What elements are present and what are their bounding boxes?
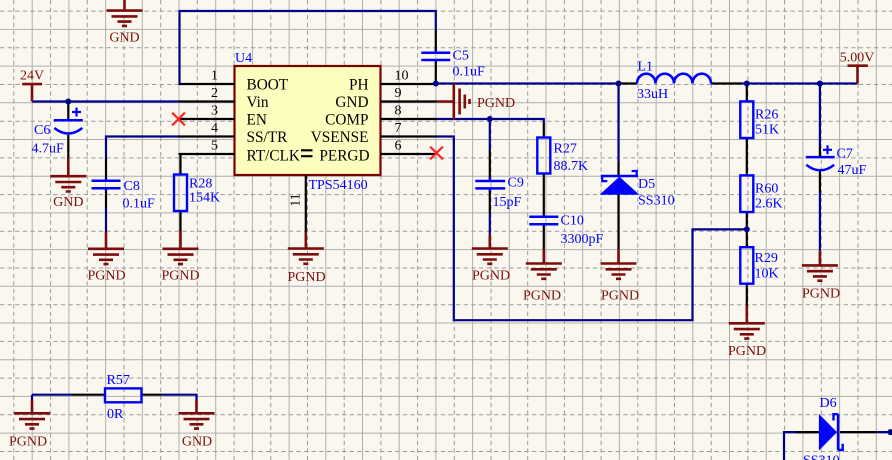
wire C9 bottom to PGND — [489, 191, 491, 235]
pin 11 (thermal pad, bottom) — [289, 175, 306, 232]
ground GND (top) — [107, 0, 143, 46]
node dot R60/R29 divider — [744, 226, 750, 232]
ground GND (R57 right) — [179, 400, 215, 450]
pin name BOOT — [247, 77, 289, 94]
svg-text:TPS54160: TPS54160 — [309, 178, 368, 193]
svg-text:6: 6 — [395, 139, 402, 154]
label R26 — [755, 108, 778, 123]
wire pin8 COMP to R27 — [437, 119, 544, 138]
wire C6 bottom pin — [67, 135, 69, 158]
svg-text:PGND: PGND — [161, 269, 199, 284]
wire VSENSE feedback loop — [437, 137, 747, 321]
wire R57 right segment — [142, 395, 197, 400]
value 3300pF (C10) — [561, 232, 604, 247]
svg-text:4: 4 — [211, 121, 218, 136]
pin 1 (BOOT) — [179, 69, 235, 85]
wire D5 anode to PGND — [617, 194, 619, 249]
svg-text:PGND: PGND — [802, 287, 840, 302]
pin 11 name marks inside body — [301, 150, 313, 156]
value 154K (R28) — [189, 191, 220, 206]
wire PH node to R26 top — [746, 84, 748, 102]
svg-text:SS310: SS310 — [803, 454, 840, 460]
svg-text:GND: GND — [53, 195, 83, 210]
svg-text:2: 2 — [211, 86, 218, 101]
svg-text:D6: D6 — [820, 396, 837, 411]
wire 24V input rail to pin2 — [32, 100, 179, 102]
wire C8 top pin — [105, 158, 107, 179]
svg-text:C8: C8 — [124, 179, 140, 194]
diode D5 (Schottky, pointing up) — [601, 171, 638, 194]
pin name RT/CLK — [247, 148, 300, 165]
svg-text:R60: R60 — [755, 182, 778, 197]
wire R60 to divider node — [746, 212, 748, 229]
svg-text:R27: R27 — [554, 142, 577, 157]
wire R29 bottom to PGND — [746, 284, 748, 305]
power ground PGND (under C7) — [802, 251, 840, 301]
wire D6 net left — [784, 432, 819, 460]
value 0.1uF (C8) — [123, 197, 156, 212]
power ground PGND (under R28) — [161, 231, 199, 284]
pin 6 (PERGD) — [381, 139, 437, 155]
pin 10 (PH) — [381, 69, 437, 85]
resistor R29 — [740, 247, 753, 284]
wire R26 to R60 — [746, 138, 748, 175]
wire D6 cathode to right edge — [840, 431, 892, 433]
resistor R26 — [740, 101, 753, 138]
value SS310 (D6) — [803, 454, 840, 460]
svg-text:154K: 154K — [189, 191, 220, 206]
label C9 — [508, 176, 524, 191]
svg-text:4.7uF: 4.7uF — [32, 142, 65, 157]
svg-text:C9: C9 — [508, 176, 524, 191]
resistor R60 — [740, 175, 753, 212]
power ground PGND (R57 left) — [9, 400, 50, 450]
node dot COMP/C9 — [487, 116, 493, 122]
wire D6 anode pin — [796, 431, 819, 433]
svg-text:SS310: SS310 — [638, 194, 675, 209]
power ground PGND (under C9) — [472, 235, 510, 284]
label D5 — [638, 177, 655, 192]
pin 3 (EN) — [179, 104, 235, 120]
value 51K (R26) — [755, 123, 779, 138]
wire R28 bottom to PGND — [179, 211, 181, 231]
svg-text:RT/CLK: RT/CLK — [247, 148, 300, 165]
power port 24V — [20, 69, 44, 102]
pin 7 (VSENSE) — [381, 121, 437, 137]
label R60 — [755, 182, 778, 197]
svg-text:1: 1 — [211, 69, 218, 84]
wire C8 bottom to PGND — [105, 191, 107, 232]
capacitor C5 — [421, 50, 450, 62]
value 0R (R57) — [107, 407, 124, 422]
power ground PGND (under R29) — [728, 305, 766, 359]
value 10K (R29) — [755, 267, 779, 282]
svg-text:GND: GND — [335, 94, 368, 111]
value 2.6K (R60) — [755, 197, 783, 212]
no-connect X on pin 6 — [430, 147, 443, 160]
wire C6 top pin — [67, 102, 69, 118]
node dot output/R26 — [744, 81, 750, 87]
value 88.7K (R27) — [554, 159, 589, 174]
wire R27 bottom to C10 — [543, 174, 545, 216]
label R28 — [189, 177, 212, 192]
wire L1 right pin — [711, 82, 741, 84]
no-connect X on pin 3 — [172, 113, 185, 126]
svg-text:R29: R29 — [755, 251, 778, 266]
svg-text:11: 11 — [289, 193, 304, 206]
svg-text:0.1uF: 0.1uF — [453, 65, 486, 80]
svg-text:U4: U4 — [235, 51, 252, 66]
svg-text:0.1uF: 0.1uF — [123, 197, 156, 212]
capacitor C9 — [475, 178, 505, 192]
label R27 — [554, 142, 577, 157]
svg-text:0R: 0R — [107, 407, 124, 422]
svg-text:5.00V: 5.00V — [840, 51, 875, 66]
label R57 — [107, 373, 130, 388]
power ground PGND (pin 11) — [287, 232, 325, 286]
svg-text:51K: 51K — [755, 123, 779, 138]
svg-text:3: 3 — [211, 104, 218, 119]
svg-text:PGND: PGND — [9, 435, 47, 450]
label C8 — [124, 179, 140, 194]
capacitor C8 — [92, 179, 121, 191]
svg-text:PGND: PGND — [728, 344, 766, 359]
wire pin5 to R28 — [179, 154, 181, 175]
value 47uF (C7) — [838, 163, 867, 178]
wire C10 bottom to PGND — [543, 226, 545, 249]
pin 9 (GND) — [381, 86, 437, 102]
svg-text:5: 5 — [211, 139, 218, 154]
pin name EN — [247, 112, 267, 129]
pin 5 (RT/CLK) — [179, 139, 235, 155]
svg-text:BOOT: BOOT — [247, 77, 289, 94]
resistor R57 (horizontal) — [105, 388, 142, 402]
label D6 — [820, 396, 837, 411]
capacitor C7 (polarized) — [806, 145, 835, 170]
svg-text:C7: C7 — [837, 147, 853, 162]
svg-text:COMP: COMP — [325, 112, 368, 129]
wire D5 cathode drop — [617, 84, 619, 176]
pin name GND — [335, 94, 368, 111]
node dot output/C7 — [817, 81, 823, 87]
label C5 — [453, 49, 469, 64]
svg-text:C6: C6 — [34, 123, 50, 138]
svg-text:47uF: 47uF — [838, 163, 867, 178]
capacitor C10 — [529, 215, 558, 226]
ground GND (under C6) — [50, 158, 86, 211]
pin 2 (Vin) — [179, 86, 235, 102]
svg-text:10K: 10K — [755, 267, 779, 282]
svg-text:EN: EN — [247, 112, 267, 129]
resistor R28 — [174, 175, 187, 212]
wire C5 pin segments — [435, 30, 437, 82]
power ground PGND (under C10) — [523, 249, 562, 303]
svg-text:3300pF: 3300pF — [561, 232, 604, 247]
diode D6 (Schottky, pointing right) — [819, 414, 842, 450]
power ground PGND (pin 9, right-facing) — [437, 84, 516, 120]
svg-text:SS/TR: SS/TR — [247, 129, 289, 146]
power port 5.00V — [840, 51, 875, 84]
label R29 — [755, 251, 778, 266]
label C6 — [34, 123, 50, 138]
svg-text:PERGD: PERGD — [319, 148, 369, 165]
label C7 — [837, 147, 853, 162]
label L1 — [638, 60, 654, 75]
wire C7 branch — [819, 84, 821, 157]
value 4.7uF (C6) — [32, 142, 65, 157]
svg-text:8: 8 — [395, 104, 402, 119]
svg-text:10: 10 — [395, 69, 409, 84]
comment TPS54160 — [309, 178, 368, 193]
value 15pF (C9) — [493, 195, 522, 210]
wire L1 to 5.00V node — [741, 82, 858, 84]
svg-text:D5: D5 — [638, 177, 655, 192]
wire C9 branch from COMP node — [489, 119, 491, 178]
svg-text:88.7K: 88.7K — [554, 159, 589, 174]
wire pin4 SS/TR to C8 — [106, 137, 179, 159]
wire PH rail pin10 to L1 — [436, 82, 618, 84]
svg-text:24V: 24V — [20, 69, 44, 84]
svg-text:33uH: 33uH — [637, 87, 668, 102]
wire R57 left segment — [32, 395, 105, 400]
svg-text:2.6K: 2.6K — [755, 197, 783, 212]
wire C7 bottom to PGND — [819, 171, 821, 252]
pin name Vin — [247, 94, 269, 111]
svg-text:GND: GND — [109, 31, 139, 46]
svg-text:PGND: PGND — [287, 270, 325, 285]
value 0.1uF (C5) — [453, 65, 486, 80]
power ground PGND (under D5) — [601, 249, 640, 303]
node dot D6 right edge — [888, 429, 892, 435]
node dot PH/D5 — [616, 81, 622, 87]
svg-text:VSENSE: VSENSE — [311, 129, 369, 146]
wire L1 left pin — [618, 82, 637, 84]
node dot C5/PH — [433, 81, 439, 87]
value SS310 (D5) — [638, 194, 675, 209]
svg-text:R26: R26 — [755, 108, 778, 123]
svg-text:C5: C5 — [453, 49, 469, 64]
wire divider node to R29 — [746, 229, 748, 247]
pin 4 (SS/TR) — [179, 121, 235, 137]
svg-text:15pF: 15pF — [493, 195, 522, 210]
svg-text:PGND: PGND — [477, 96, 515, 111]
designator U4 — [235, 51, 252, 66]
pin name PERGD — [319, 148, 369, 165]
svg-text:R28: R28 — [189, 177, 212, 192]
wire BOOT loop pin1 to C5 top — [180, 11, 436, 84]
node dot 24V/C6 — [65, 99, 71, 105]
svg-text:PGND: PGND — [523, 289, 561, 304]
pin name COMP — [325, 112, 368, 129]
op-amp/regulator IC U4 body — [235, 66, 381, 175]
svg-text:9: 9 — [395, 86, 402, 101]
svg-text:PGND: PGND — [472, 269, 510, 284]
pin name VSENSE — [311, 129, 369, 146]
svg-text:PGND: PGND — [601, 289, 639, 304]
resistor R27 — [537, 138, 550, 174]
label C10 — [561, 214, 584, 229]
capacitor C6 (polarized) — [54, 108, 83, 134]
svg-text:7: 7 — [395, 121, 402, 136]
svg-text:PGND: PGND — [87, 269, 125, 284]
inductor L1 — [637, 74, 711, 84]
svg-text:Vin: Vin — [247, 94, 269, 111]
svg-text:C10: C10 — [561, 214, 584, 229]
pin name SS/TR — [247, 129, 289, 146]
pin name PH — [349, 77, 369, 94]
power ground PGND (under C8) — [87, 232, 125, 284]
svg-text:R57: R57 — [107, 373, 130, 388]
svg-text:GND: GND — [182, 435, 212, 450]
svg-text:L1: L1 — [638, 60, 654, 75]
pin 8 (COMP) — [381, 104, 437, 120]
value 33uH (L1) — [637, 87, 668, 102]
svg-text:PH: PH — [349, 77, 369, 94]
